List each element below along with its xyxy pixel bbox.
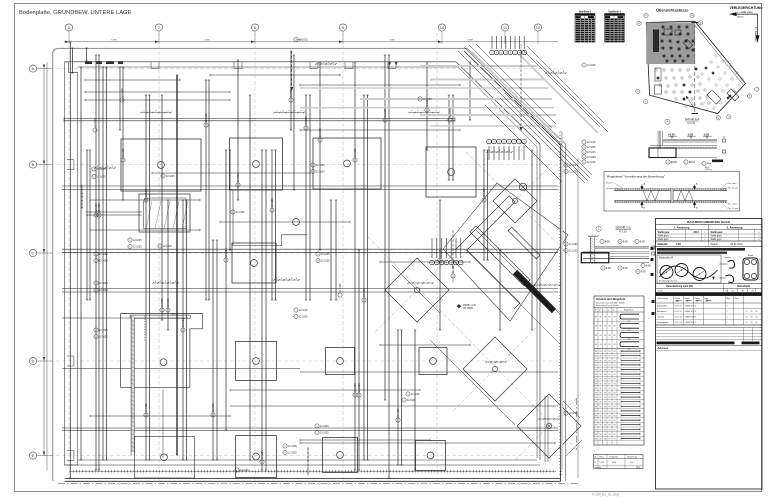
svg-text:99: 99 (614, 344, 616, 346)
svg-text:99: 99 (609, 411, 611, 413)
svg-text:99/15: 99/15 (671, 161, 678, 164)
svg-text:99: 99 (595, 434, 597, 436)
svg-text:Hinweis und Biegeliste: Hinweis und Biegeliste (596, 297, 626, 301)
svg-text:VERLEGERICHTUNG: VERLEGERICHTUNG (730, 6, 764, 10)
svg-text:99: 99 (600, 326, 602, 328)
svg-text:Gezeichnet: Gezeichnet (658, 297, 669, 300)
svg-text:M 1:50: M 1:50 (688, 122, 696, 125)
svg-text:50: 50 (751, 316, 753, 318)
svg-text:99: 99 (600, 411, 602, 413)
svg-text:12 1025: 12 1025 (236, 211, 245, 214)
svg-text:99: 99 (604, 397, 606, 399)
svg-text:12 1025: 12 1025 (407, 399, 416, 402)
svg-text:OKRB +2.70: OKRB +2.70 (463, 305, 477, 307)
svg-text:99: 99 (595, 429, 597, 431)
svg-text:9: 9 (95, 330, 96, 332)
svg-text:gepr.: gepr. (705, 297, 710, 300)
svg-text:99: 99 (595, 402, 597, 404)
svg-text:Schnitt 3-3: Schnitt 3-3 (685, 117, 700, 121)
svg-text:12 1025: 12 1025 (449, 108, 452, 117)
svg-text:9: 9 (295, 316, 296, 318)
svg-text:99: 99 (595, 356, 597, 358)
svg-text:12 1025: 12 1025 (452, 264, 455, 273)
svg-text:99: 99 (609, 402, 611, 404)
svg-text:12 1025: 12 1025 (240, 469, 249, 472)
svg-text:Aufgestellt: Aufgestellt (657, 304, 667, 307)
svg-text:12 1025: 12 1025 (99, 335, 108, 338)
svg-text:12 1025: 12 1025 (587, 64, 596, 67)
svg-text:Statik gepr.: Statik gepr. (658, 238, 670, 241)
svg-text:12 1025: 12 1025 (237, 173, 240, 182)
svg-text:99: 99 (600, 393, 602, 395)
svg-text:9: 9 (284, 446, 285, 448)
svg-text:1: 1 (727, 311, 728, 313)
svg-text:99: 99 (604, 406, 606, 408)
svg-text:Statik gepr.: Statik gepr. (711, 231, 724, 234)
svg-text:12 1025: 12 1025 (354, 383, 357, 392)
svg-text:99: 99 (609, 416, 611, 418)
svg-text:10: 10 (440, 25, 445, 30)
svg-text:9: 9 (565, 250, 566, 252)
svg-text:99: 99 (604, 370, 606, 372)
svg-text:0.395: 0.395 (600, 462, 605, 464)
svg-text:99: 99 (614, 326, 616, 328)
svg-text:99: 99 (600, 429, 602, 431)
svg-text:999: 999 (628, 330, 631, 332)
svg-text:99: 99 (614, 406, 616, 408)
svg-text:99: 99 (614, 393, 616, 395)
svg-text:Datum: Datum (711, 243, 718, 246)
svg-text:9: 9 (95, 290, 96, 292)
svg-text:9-99: 9-99 (640, 240, 645, 243)
svg-text:99: 99 (595, 420, 597, 422)
svg-text:Maßstab: Maßstab (658, 243, 669, 246)
svg-text:99: 99 (614, 439, 616, 441)
svg-text:99: 99 (595, 406, 597, 408)
svg-text:99: 99 (604, 411, 606, 413)
svg-text:99: 99 (604, 429, 606, 431)
svg-text:9: 9 (93, 169, 94, 171)
svg-text:12 1025: 12 1025 (316, 164, 325, 167)
svg-text:12 1025: 12 1025 (133, 245, 142, 248)
svg-text:99: 99 (609, 374, 611, 376)
svg-text:12 1025: 12 1025 (99, 253, 108, 256)
svg-text:99: 99 (614, 370, 616, 372)
svg-text:99: 99 (595, 439, 597, 441)
svg-text:9: 9 (636, 241, 637, 243)
svg-text:999: 999 (628, 339, 631, 341)
svg-text:99: 99 (604, 351, 606, 353)
svg-text:50: 50 (746, 316, 748, 318)
svg-text:12 1025: 12 1025 (483, 188, 486, 197)
svg-text:9: 9 (95, 336, 96, 338)
svg-text:12 1025: 12 1025 (569, 164, 578, 167)
svg-text:2. Änderung: 2. Änderung (727, 225, 743, 229)
svg-text:-0.35: -0.35 (687, 132, 694, 136)
svg-text:9: 9 (583, 65, 584, 67)
svg-text:50: 50 (756, 311, 758, 313)
svg-text:D: D (32, 358, 35, 363)
svg-text:99: 99 (604, 344, 606, 346)
svg-text:A: A (32, 66, 35, 71)
svg-text:99: 99 (600, 416, 602, 418)
svg-text:99: 99 (609, 397, 611, 399)
svg-text:99: 99 (609, 317, 611, 319)
svg-text:01.07.14: 01.07.14 (675, 322, 682, 324)
svg-text:1: 1 (727, 316, 728, 318)
svg-text:Adresse: Adresse (658, 346, 669, 350)
svg-text:99: 99 (609, 393, 611, 395)
svg-text:99: 99 (614, 379, 616, 381)
svg-text:9: 9 (95, 283, 96, 285)
svg-text:99: 99 (604, 326, 606, 328)
svg-text:9: 9 (703, 163, 704, 165)
svg-text:9: 9 (602, 268, 603, 270)
svg-text:12 1025: 12 1025 (299, 38, 308, 41)
svg-text:GMBH WXYZ: GMBH WXYZ (685, 316, 698, 318)
svg-text:9: 9 (619, 268, 620, 270)
svg-text:9: 9 (685, 162, 686, 164)
svg-text:12 1025: 12 1025 (225, 248, 228, 257)
svg-text:GMBH WXYZ: GMBH WXYZ (685, 305, 698, 307)
svg-text:12 1025: 12 1025 (426, 98, 429, 107)
svg-text:12 1025: 12 1025 (145, 403, 148, 412)
svg-text:99: 99 (595, 351, 597, 353)
svg-text:2. LAGE oben: 2. LAGE oben (754, 27, 757, 42)
svg-text:12: 12 (536, 25, 541, 30)
svg-text:Biegerollen-Ø: Biegerollen-Ø (659, 257, 673, 260)
svg-text:99: 99 (604, 379, 606, 381)
svg-text:99: 99 (600, 370, 602, 372)
svg-text:12 1025: 12 1025 (299, 309, 308, 312)
svg-text:9: 9 (583, 157, 584, 159)
svg-text:99: 99 (595, 344, 597, 346)
svg-text:9: 9 (312, 165, 313, 167)
svg-text:99: 99 (600, 397, 602, 399)
svg-text:12 1025: 12 1025 (569, 170, 578, 173)
svg-text:99: 99 (604, 374, 606, 376)
svg-text:50: 50 (751, 311, 753, 313)
svg-text:9: 9 (236, 470, 237, 472)
svg-text:99: 99 (609, 344, 611, 346)
svg-text:99: 99 (604, 365, 606, 367)
svg-text:50: 50 (751, 322, 753, 324)
svg-text:12 1025: 12 1025 (161, 298, 164, 307)
svg-text:Haken: Haken (725, 257, 732, 259)
svg-text:99: 99 (609, 420, 611, 422)
svg-text:99: 99 (595, 379, 597, 381)
svg-text:Regeldetail "Verankerung der B: Regeldetail "Verankerung der Bewehrung" (607, 175, 665, 179)
svg-text:Pos. unten: Pos. unten (728, 202, 737, 205)
svg-text:99: 99 (614, 425, 616, 427)
svg-text:99: 99 (609, 429, 611, 431)
svg-text:12 1025: 12 1025 (99, 289, 108, 292)
svg-text:12 1025: 12 1025 (288, 445, 297, 448)
svg-text:99: 99 (604, 317, 606, 319)
svg-text:Länge (m): Länge (m) (609, 457, 618, 459)
svg-text:12 1025: 12 1025 (94, 118, 97, 127)
svg-text:9: 9 (295, 310, 296, 312)
svg-text:9: 9 (403, 400, 404, 402)
svg-text:99: 99 (604, 416, 606, 418)
svg-text:12 1025: 12 1025 (133, 239, 142, 242)
svg-text:12 1025: 12 1025 (569, 412, 578, 415)
svg-text:9: 9 (583, 147, 584, 149)
svg-text:9: 9 (317, 260, 318, 262)
svg-text:99: 99 (600, 379, 602, 381)
svg-text:12 1025: 12 1025 (99, 259, 108, 262)
svg-text:99: 99 (600, 420, 602, 422)
svg-text:99: 99 (600, 388, 602, 390)
svg-text:99: 99 (614, 356, 616, 358)
svg-text:12 1025: 12 1025 (261, 450, 264, 459)
svg-text:12 1025: 12 1025 (205, 113, 208, 122)
svg-text:Bügel: Bügel (748, 255, 754, 257)
svg-text:50: 50 (746, 311, 748, 313)
svg-text:99: 99 (604, 383, 606, 385)
svg-text:Bodenplatte, GRUNDBEW. UNTERE: Bodenplatte, GRUNDBEW. UNTERE LAGE (19, 10, 132, 16)
svg-text:-0.35: -0.35 (703, 132, 710, 136)
svg-text:Beton/Stahl: Beton/Stahl (737, 285, 750, 288)
svg-text:C: C (32, 250, 35, 255)
svg-text:12 1025: 12 1025 (569, 243, 578, 246)
svg-text:12 1025: 12 1025 (339, 283, 342, 292)
svg-text:9: 9 (565, 165, 566, 167)
svg-text:12 1025: 12 1025 (212, 403, 215, 412)
svg-text:9-99: 9-99 (641, 270, 646, 273)
svg-text:Datum: Datum (695, 297, 701, 300)
svg-text:99: 99 (600, 351, 602, 353)
svg-text:9999: 9999 (612, 462, 616, 464)
svg-text:12 1025: 12 1025 (316, 170, 325, 173)
svg-text:9.999: 9.999 (467, 40, 473, 42)
svg-text:99: 99 (609, 335, 611, 337)
svg-text:99: 99 (614, 388, 616, 390)
svg-text:12 1025: 12 1025 (439, 248, 442, 257)
svg-text:12 1025: 12 1025 (182, 318, 185, 327)
svg-text:12 1025: 12 1025 (122, 148, 125, 157)
svg-text:9999: 9999 (636, 467, 640, 469)
svg-text:Veranker.: Veranker. (606, 188, 615, 190)
svg-text:9-99: 9-99 (623, 267, 628, 270)
svg-text:Geprüft: Geprüft (657, 315, 664, 318)
svg-text:99: 99 (595, 411, 597, 413)
svg-text:99: 99 (595, 326, 597, 328)
svg-text:9: 9 (619, 241, 620, 243)
svg-text:99: 99 (600, 406, 602, 408)
svg-text:99: 99 (595, 365, 597, 367)
svg-text:1: 1 (727, 305, 728, 307)
svg-text:Stahlliste 1: Stahlliste 1 (579, 11, 592, 14)
svg-text:99: 99 (614, 420, 616, 422)
svg-text:9: 9 (601, 241, 602, 243)
svg-text:Biegeform: Biegeform (624, 309, 634, 312)
svg-text:Plan: Plan (735, 298, 739, 300)
svg-text:+0.00: +0.00 (668, 132, 675, 136)
svg-text:9: 9 (565, 413, 566, 415)
svg-text:1: 1 (727, 322, 728, 324)
svg-text:01.07.14: 01.07.14 (675, 316, 682, 318)
svg-text:9: 9 (583, 162, 584, 164)
svg-text:99: 99 (595, 388, 597, 390)
svg-text:Name: Name (685, 298, 690, 300)
svg-text:99: 99 (614, 317, 616, 319)
svg-text:12 1025: 12 1025 (305, 116, 308, 125)
svg-text:Statik gepr.: Statik gepr. (711, 238, 723, 241)
svg-text:99: 99 (614, 360, 616, 362)
svg-text:99: 99 (609, 326, 611, 328)
svg-text:Schnitt 1-1: Schnitt 1-1 (616, 226, 631, 230)
svg-text:9: 9 (95, 260, 96, 262)
svg-text:99: 99 (604, 356, 606, 358)
svg-text:99: 99 (609, 379, 611, 381)
svg-text:Krümmungsdurchm.: Krümmungsdurchm. (659, 280, 678, 283)
svg-text:9: 9 (93, 176, 94, 178)
svg-text:99: 99 (600, 344, 602, 346)
svg-text:50: 50 (756, 316, 758, 318)
svg-text:Pos. 2.Lage: Pos. 2.Lage (728, 188, 738, 190)
svg-text:12 1025: 12 1025 (363, 288, 366, 297)
svg-text:99: 99 (609, 383, 611, 385)
svg-text:9: 9 (407, 394, 408, 396)
svg-text:9-99: 9-99 (605, 240, 610, 243)
svg-text:99: 99 (614, 365, 616, 367)
svg-text:999: 999 (630, 462, 633, 464)
svg-text:9.999: 9.999 (389, 40, 395, 42)
svg-text:12 1025: 12 1025 (97, 175, 106, 178)
svg-text:99: 99 (609, 425, 611, 427)
svg-text:Matten: Matten (737, 15, 744, 18)
svg-text:99: 99 (604, 360, 606, 362)
svg-text:12 1025: 12 1025 (321, 253, 330, 256)
svg-text:99: 99 (595, 360, 597, 362)
svg-text:Statik gepr.: Statik gepr. (658, 231, 671, 234)
svg-text:99: 99 (604, 425, 606, 427)
svg-text:99/15: 99/15 (689, 161, 696, 164)
svg-text:9: 9 (316, 426, 317, 428)
svg-text:99: 99 (614, 434, 616, 436)
svg-text:m: m (613, 310, 615, 312)
svg-text:Betonstahl nach DIN 488 • B500: Betonstahl nach DIN 488 • B500B (596, 302, 625, 305)
svg-text:12 1025: 12 1025 (163, 245, 172, 248)
svg-text:99: 99 (595, 335, 597, 337)
svg-text:12 1025: 12 1025 (288, 451, 297, 454)
svg-text:Statik gepr.: Statik gepr. (711, 235, 723, 238)
svg-text:99: 99 (609, 360, 611, 362)
svg-text:12 1025: 12 1025 (411, 393, 420, 396)
svg-text:99: 99 (600, 365, 602, 367)
svg-text:99: 99 (604, 393, 606, 395)
svg-text:99: 99 (614, 411, 616, 413)
svg-text:9: 9 (667, 162, 668, 164)
svg-text:12 1025: 12 1025 (99, 329, 108, 332)
svg-text:K-100_B2_UL.dwg: K-100_B2_UL.dwg (592, 493, 619, 497)
svg-text:Pos. oben: Pos. oben (728, 183, 737, 185)
svg-text:99: 99 (604, 402, 606, 404)
svg-text:Biegerollen-Ø nach Tabelle: Biegerollen-Ø nach Tabelle (596, 304, 619, 307)
svg-text:Gewicht kg: Gewicht kg (627, 456, 637, 459)
svg-text:99: 99 (595, 370, 597, 372)
svg-text:99: 99 (614, 402, 616, 404)
svg-text:Betondeckung nach DIN: Betondeckung nach DIN (666, 285, 693, 288)
svg-text:12 1025: 12 1025 (587, 156, 596, 159)
svg-text:OK FBOK: OK FBOK (463, 308, 474, 310)
svg-text:9: 9 (129, 246, 130, 248)
svg-text:12 1025: 12 1025 (99, 282, 108, 285)
svg-text:8: 8 (595, 462, 596, 464)
svg-text:Stossl. l: Stossl. l (606, 181, 614, 184)
svg-text:12 1025: 12 1025 (320, 425, 329, 428)
svg-text:GMBH WXYZ: GMBH WXYZ (685, 322, 698, 324)
svg-text:12 1025: 12 1025 (299, 315, 308, 318)
svg-text:99: 99 (609, 351, 611, 353)
svg-text:9-99: 9-99 (606, 267, 611, 270)
svg-text:9.999: 9.999 (111, 40, 117, 42)
svg-text:M 1:50: M 1:50 (619, 231, 627, 234)
svg-text:12 1025: 12 1025 (587, 151, 596, 154)
svg-text:12 1025: 12 1025 (320, 431, 329, 434)
svg-text:99: 99 (595, 374, 597, 376)
svg-text:99: 99 (614, 335, 616, 337)
svg-text:9: 9 (295, 39, 296, 41)
svg-text:50: 50 (756, 322, 758, 324)
svg-text:99: 99 (609, 370, 611, 372)
svg-text:99: 99 (609, 365, 611, 367)
svg-text:9: 9 (565, 171, 566, 173)
svg-text:99: 99 (609, 356, 611, 358)
svg-text:9: 9 (162, 176, 163, 178)
svg-text:9.999: 9.999 (204, 40, 210, 42)
svg-text:99: 99 (595, 383, 597, 385)
svg-text:12 1025: 12 1025 (384, 108, 387, 117)
svg-text:99: 99 (600, 402, 602, 404)
svg-text:9: 9 (316, 432, 317, 434)
svg-text:GMBH WXYZ: GMBH WXYZ (685, 311, 698, 313)
svg-text:99: 99 (614, 383, 616, 385)
svg-text:99: 99 (604, 388, 606, 390)
svg-text:9: 9 (642, 265, 643, 267)
svg-text:Gew.: Gew. (600, 457, 605, 459)
svg-text:9: 9 (317, 254, 318, 256)
svg-text:12 1025: 12 1025 (167, 298, 170, 307)
svg-text:99: 99 (595, 393, 597, 395)
svg-text:2014: 2014 (694, 231, 700, 234)
svg-text:Freigegeben: Freigegeben (657, 321, 670, 324)
svg-text:99: 99 (600, 434, 602, 436)
svg-text:12 1025: 12 1025 (569, 249, 578, 252)
svg-text:9: 9 (159, 246, 160, 248)
svg-text:12 1025: 12 1025 (587, 141, 596, 144)
svg-text:12 1025: 12 1025 (358, 383, 361, 392)
svg-text:9-99: 9-99 (623, 240, 628, 243)
svg-text:9: 9 (284, 452, 285, 454)
svg-text:99: 99 (604, 420, 606, 422)
svg-text:Statik gepr.: Statik gepr. (658, 235, 670, 238)
svg-text:Stahlliste 1: Stahlliste 1 (608, 11, 621, 14)
svg-text:Pos. 1.Lage: Pos. 1.Lage (728, 208, 738, 210)
svg-text:12 1025: 12 1025 (587, 161, 596, 164)
svg-text:9: 9 (232, 212, 233, 214)
svg-text:12 1025: 12 1025 (166, 175, 175, 178)
svg-text:cnom: cnom (658, 291, 663, 293)
svg-text:99: 99 (604, 439, 606, 441)
svg-text:99: 99 (614, 429, 616, 431)
svg-text:99: 99 (600, 383, 602, 385)
svg-text:12 1025: 12 1025 (321, 259, 330, 262)
svg-text:B: B (32, 162, 35, 167)
svg-text:99: 99 (600, 425, 602, 427)
svg-text:12 1025: 12 1025 (97, 168, 106, 171)
